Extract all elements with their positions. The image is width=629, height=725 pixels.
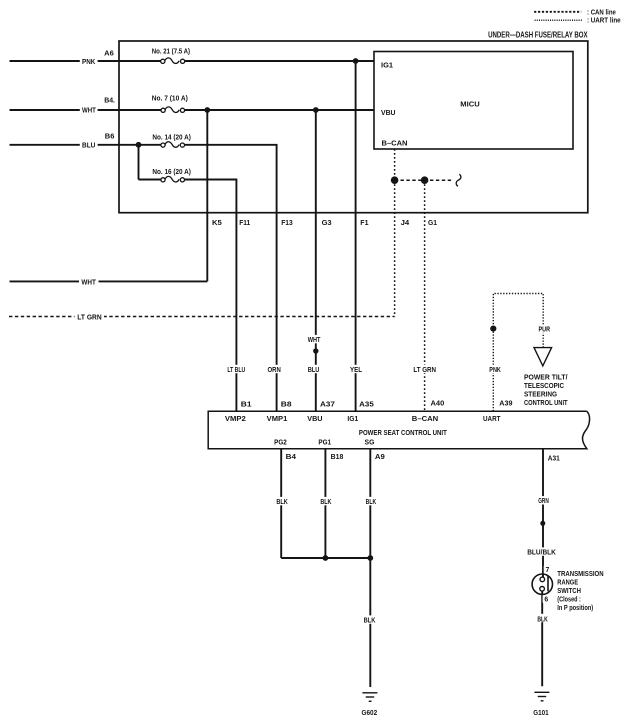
- wire G3 branch down to A37: [315, 110, 317, 411]
- svg-text:STEERING: STEERING: [524, 390, 557, 398]
- svg-text:A39: A39: [499, 399, 512, 407]
- wire G1 dotted down to A40: [424, 180, 426, 411]
- svg-text:BLU/BLK: BLU/BLK: [527, 549, 556, 557]
- fuse No.21 (7.5 A): [161, 58, 185, 64]
- svg-text:POWER TILT/: POWER TILT/: [524, 373, 568, 381]
- svg-text:WHT: WHT: [308, 336, 321, 344]
- wire PNK from A6 into box to fuse No.21: [10, 60, 161, 62]
- wire branch from BLU down to fuse No.16: [138, 145, 140, 180]
- node BLU to fuse No.16 junction: [136, 142, 142, 148]
- wire LT GRN dotted CAN line from left: [9, 316, 395, 318]
- wire color label LT BLU: [225, 365, 248, 373]
- svg-text:WHT: WHT: [81, 278, 96, 286]
- svg-text:PUR: PUR: [539, 326, 551, 334]
- node GRN/BLU-BLK splice: [540, 521, 545, 526]
- svg-text:BLK: BLK: [276, 498, 288, 506]
- wire PG1/B18 down to ground bus: [324, 449, 326, 558]
- power seat control unit box: [208, 411, 589, 449]
- wire color label BLK above G602: [361, 615, 378, 623]
- wire color label PNK: [80, 57, 98, 65]
- node WHT/BLU splice on A37 wire: [313, 348, 318, 353]
- svg-text:VMP2: VMP2: [225, 415, 246, 423]
- svg-text:RANGE: RANGE: [557, 578, 578, 586]
- svg-text:A31: A31: [548, 454, 560, 462]
- wire color label PUR: [536, 324, 552, 332]
- svg-text:UNDER—DASH FUSE/RELAY BOX: UNDER—DASH FUSE/RELAY BOX: [488, 30, 588, 39]
- fuse No.14 (20 A): [161, 142, 185, 148]
- node VBU to G3 junction: [313, 107, 319, 113]
- svg-text:G602: G602: [362, 709, 378, 717]
- svg-text:F11: F11: [239, 219, 250, 227]
- svg-text:(Closed :: (Closed :: [557, 596, 581, 604]
- svg-text:: CAN line: : CAN line: [587, 9, 616, 16]
- svg-text:B–CAN: B–CAN: [412, 415, 438, 423]
- svg-text:SG: SG: [365, 438, 375, 446]
- svg-text:LT GRN: LT GRN: [413, 366, 436, 374]
- svg-text:SWITCH: SWITCH: [557, 587, 581, 595]
- wire fuse No.16 right then down to F11 and B1: [185, 180, 237, 412]
- svg-text:PNK: PNK: [489, 366, 501, 374]
- node B-CAN G1 junction: [421, 176, 429, 184]
- svg-text:K5: K5: [212, 219, 222, 227]
- svg-text:7: 7: [546, 566, 550, 574]
- svg-text:B–CAN: B–CAN: [382, 139, 408, 147]
- svg-text:LT BLU: LT BLU: [227, 366, 245, 374]
- switch pin 7 label: [544, 566, 551, 574]
- wire BLU from B6 into box to fuse No.14: [10, 144, 161, 146]
- wire color label BLK on A9 wire: [363, 497, 378, 505]
- wire K5 branch down inside box: [206, 110, 208, 281]
- wire color label GRN on A31 wire: [536, 496, 551, 504]
- wire color label WHT on K5 feed: [79, 277, 99, 285]
- svg-text:GRN: GRN: [538, 497, 549, 505]
- ground bus wire: [281, 557, 370, 559]
- wire F1 branch down to A35: [355, 61, 357, 411]
- wire color label PNK on A39 wire: [487, 365, 504, 373]
- svg-text:B4.: B4.: [104, 97, 115, 105]
- wire color label YEL: [348, 365, 365, 373]
- wire color label LT GRN on CAN line: [75, 312, 105, 320]
- wire B-CAN dotted from MICU down: [394, 149, 396, 180]
- svg-text:6: 6: [544, 596, 548, 604]
- wire SG/A9 down to ground G602: [369, 449, 371, 687]
- wire color label BLU: [80, 141, 98, 149]
- node ground bus A9 junction: [367, 555, 373, 561]
- svg-text:BLU: BLU: [82, 142, 95, 150]
- svg-text:YEL: YEL: [350, 366, 363, 374]
- svg-text:VBU: VBU: [381, 109, 396, 117]
- svg-text:LT GRN: LT GRN: [77, 314, 101, 322]
- wire J4 dotted down to LT GRN: [394, 180, 396, 316]
- svg-text:F13: F13: [281, 219, 293, 227]
- transmission range switch: [532, 574, 552, 594]
- svg-text:A35: A35: [359, 401, 374, 409]
- wire A31 down to transmission range switch: [542, 449, 544, 577]
- svg-text:PNK: PNK: [82, 58, 96, 66]
- svg-text:G1: G1: [428, 219, 437, 227]
- svg-text:B6: B6: [105, 132, 115, 140]
- svg-text:No. 21 (7.5 A): No. 21 (7.5 A): [152, 48, 191, 56]
- svg-text:BLK: BLK: [537, 615, 548, 623]
- svg-text:G3: G3: [322, 219, 332, 227]
- svg-text:No. 14 (20 A): No. 14 (20 A): [152, 133, 191, 141]
- svg-text:BLK: BLK: [320, 498, 332, 506]
- node ground bus B18 junction: [323, 555, 329, 561]
- ground G101: [534, 692, 549, 701]
- svg-text:A9: A9: [375, 453, 385, 461]
- under-dash fuse/relay box outline: [119, 41, 588, 213]
- svg-text:VMP1: VMP1: [267, 415, 288, 423]
- svg-text:BLK: BLK: [366, 498, 377, 506]
- svg-text:TRANSMISSION: TRANSMISSION: [557, 570, 603, 578]
- node IG1 to F1 junction: [353, 58, 359, 64]
- wire color label BLK on B18 wire: [318, 497, 334, 505]
- svg-text:J4: J4: [401, 219, 410, 227]
- svg-text:VBU: VBU: [307, 415, 322, 423]
- svg-text:IG1: IG1: [381, 62, 393, 70]
- fuse No.7 (10 A): [161, 107, 185, 113]
- svg-text:No. 7 (10 A): No. 7 (10 A): [152, 95, 189, 103]
- wire switch pin 6 down to ground G101: [541, 591, 543, 686]
- svg-text:B1: B1: [241, 401, 252, 409]
- wire fuse No.7 to MICU pin VBU: [185, 109, 374, 111]
- svg-text:B4: B4: [286, 453, 296, 461]
- wire B-CAN dashed across to break: [395, 179, 454, 181]
- svg-text:A6: A6: [104, 50, 114, 58]
- svg-text:No. 16 (20 A): No. 16 (20 A): [152, 168, 191, 176]
- ground G602: [362, 693, 377, 702]
- wire color label BLU on A37 wire: [305, 365, 322, 373]
- svg-text:ORN: ORN: [268, 366, 281, 374]
- svg-text:In P position): In P position): [557, 604, 593, 612]
- wire color label ORN: [265, 365, 283, 373]
- wire WHT feeding K5 from left: [10, 280, 208, 282]
- wire fuse No.21 to MICU pin IG1: [185, 60, 374, 62]
- svg-text:PG1: PG1: [318, 438, 331, 446]
- svg-text:F1: F1: [360, 219, 368, 227]
- svg-text:IG1: IG1: [347, 415, 358, 423]
- legend UART line sample: [535, 19, 582, 21]
- svg-text:TELESCOPIC: TELESCOPIC: [524, 382, 564, 390]
- svg-text:B18: B18: [331, 453, 344, 461]
- wire WHT from B4 into box to fuse No.7: [10, 109, 162, 111]
- switch pin 6 label: [543, 595, 550, 603]
- svg-text:UART: UART: [483, 415, 501, 423]
- legend CAN line sample: [534, 11, 581, 13]
- node VBU to K5 junction: [204, 107, 210, 113]
- MICU U1 outline: [374, 52, 573, 150]
- svg-text:A37: A37: [320, 401, 335, 409]
- node B-CAN J4 junction: [391, 176, 399, 184]
- svg-text:: UART line: : UART line: [587, 18, 621, 25]
- wire PG2/B4 down to ground bus: [280, 449, 282, 558]
- wire color label BLK on B4 wire: [274, 497, 290, 505]
- svg-text:A40: A40: [431, 399, 445, 407]
- wire color label BLU/BLK on A31 wire: [525, 547, 559, 555]
- svg-text:WHT: WHT: [82, 107, 96, 115]
- wire color label LT GRN on A40 wire: [411, 365, 439, 373]
- arrow to power tilt/telescopic steering control unit: [534, 348, 552, 366]
- wire color label BLK above G101: [535, 614, 550, 622]
- fuse No.16 (20 A): [161, 176, 185, 182]
- node UART splice: [490, 326, 496, 332]
- wire color label WHT: [80, 106, 98, 114]
- svg-text:POWER SEAT CONTROL UNIT: POWER SEAT CONTROL UNIT: [359, 428, 447, 437]
- wire UART dotted from A39 up and over to PUR: [493, 294, 543, 412]
- svg-text:BLU: BLU: [308, 366, 320, 374]
- svg-text:BLK: BLK: [364, 617, 376, 625]
- svg-text:B8: B8: [281, 401, 292, 409]
- svg-text:PG2: PG2: [274, 438, 287, 446]
- wire fuse No.14 right then down to F13 and B8: [185, 145, 277, 411]
- svg-text:CONTROL UNIT: CONTROL UNIT: [524, 399, 568, 407]
- wire color label WHT on A37 wire: [305, 335, 322, 343]
- wire break squiggle: [456, 174, 461, 186]
- svg-text:MICU: MICU: [460, 101, 479, 108]
- svg-text:G101: G101: [533, 709, 548, 717]
